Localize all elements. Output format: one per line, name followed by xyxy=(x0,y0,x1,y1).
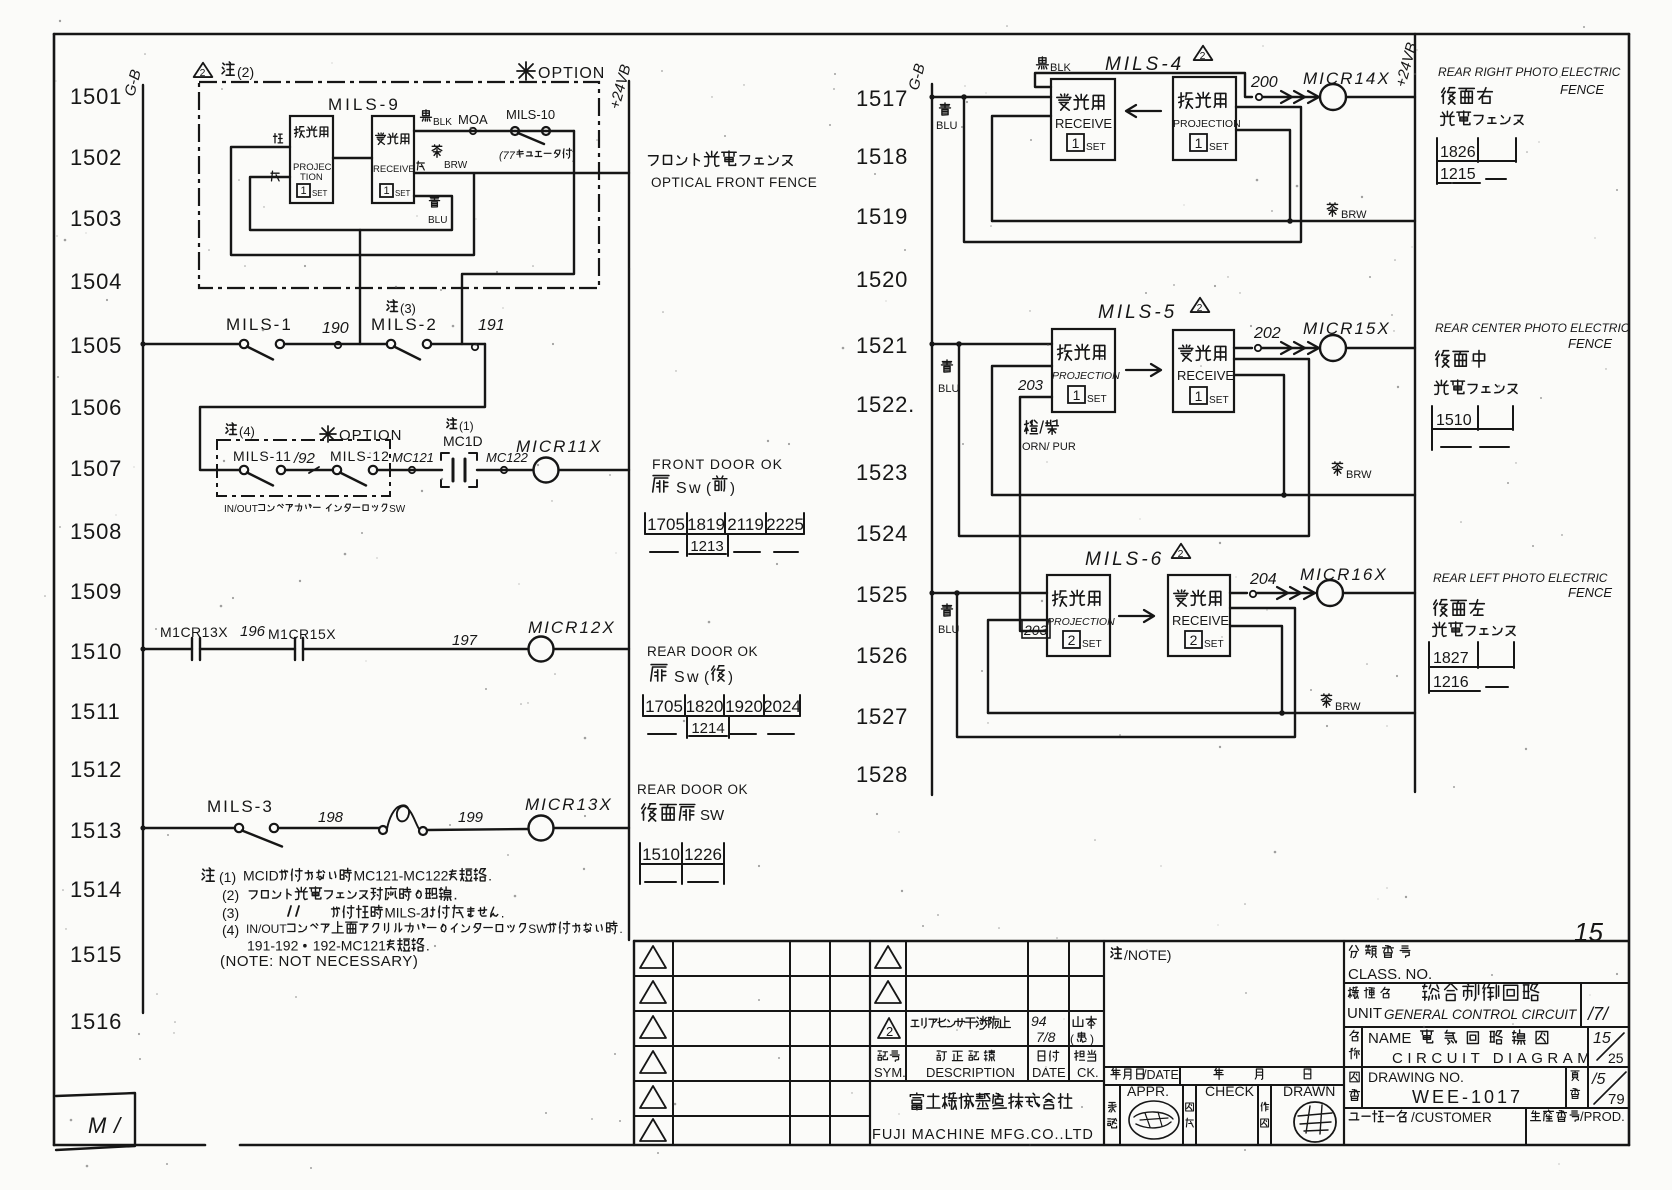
right G-B rail xyxy=(931,84,933,795)
svg-text:DATE: DATE xyxy=(1032,1065,1066,1080)
switch MILS-10 xyxy=(506,107,555,144)
label REAR RIGHT PHOTO ELECTRIC FENCE xyxy=(1438,65,1621,97)
wire coil MICR15X to rail xyxy=(1346,347,1415,349)
switch MILS-1 xyxy=(226,315,293,360)
wire between projection and receive xyxy=(333,157,372,159)
wire MILS-11 to MILS-12 with tick xyxy=(285,467,333,473)
svg-text:WEE-1017: WEE-1017 xyxy=(1412,1087,1523,1107)
svg-text:1510: 1510 xyxy=(642,845,680,864)
svg-text:192-MC121: 192-MC121 xyxy=(313,938,386,954)
svg-text:MILS-6: MILS-6 xyxy=(1085,549,1164,570)
unit row xyxy=(1347,983,1610,1027)
title block frame horizontals xyxy=(634,941,1628,1116)
label OPTION top xyxy=(517,62,605,82)
svg-text:PROJECTION: PROJECTION xyxy=(1047,616,1115,628)
svg-text:RECEIVE: RECEIVE xyxy=(1055,116,1112,131)
svg-text:1226: 1226 xyxy=(684,845,722,864)
svg-text:MILS-2: MILS-2 xyxy=(385,906,429,921)
label 注(3) xyxy=(387,300,416,316)
label actuator note xyxy=(499,148,576,162)
chevron arrows MILS-6 xyxy=(1257,587,1315,599)
xref table rung 1513 xyxy=(640,843,724,884)
svg-text:TION: TION xyxy=(300,172,323,183)
svg-text:1521: 1521 xyxy=(856,333,908,358)
svg-text:2: 2 xyxy=(1068,632,1076,648)
wire outer loop BLU MILS-4 xyxy=(961,94,1301,242)
label MILS-5 title xyxy=(1098,298,1209,323)
title block frame verticals xyxy=(634,941,1344,1145)
svg-text:1: 1 xyxy=(1073,387,1081,403)
drawing no row xyxy=(1350,1067,1626,1108)
svg-text:1826: 1826 xyxy=(1440,144,1476,161)
coil MICR16X xyxy=(1300,565,1388,606)
svg-text:MC121: MC121 xyxy=(392,450,434,465)
terminal 191 xyxy=(472,317,505,350)
svg-text:BLU: BLU xyxy=(936,120,957,132)
receive box MILS-5 xyxy=(1173,330,1234,412)
svg-text:REAR LEFT PHOTO ELECTRIC: REAR LEFT PHOTO ELECTRIC xyxy=(1433,571,1608,585)
junction left rail 1505 xyxy=(140,341,145,346)
svg-text:BRW: BRW xyxy=(1341,209,1367,221)
wire MC1D to coil xyxy=(477,469,533,471)
label door sw front jp xyxy=(653,476,735,497)
svg-text:1517: 1517 xyxy=(856,86,908,111)
wire BRW receive to +24VB rail xyxy=(414,172,629,174)
svg-text:(: ( xyxy=(704,669,709,686)
svg-text:): ) xyxy=(728,669,733,686)
wire MILS-2 to corner xyxy=(431,343,485,345)
drawn stamp xyxy=(1294,1102,1336,1142)
wire outer loop MILS-6 xyxy=(954,590,1295,737)
svg-text:/5: /5 xyxy=(1591,1071,1605,1088)
note line 3 xyxy=(222,905,505,921)
svg-text:MC121-MC122: MC121-MC122 xyxy=(354,868,449,884)
svg-text:REAR RIGHT PHOTO ELECTRIC: REAR RIGHT PHOTO ELECTRIC xyxy=(1438,65,1621,79)
wire inner loop MILS-5 xyxy=(992,366,1052,495)
wire loop A projection pin1 xyxy=(231,147,474,255)
xref table MILS-6 xyxy=(1429,642,1514,693)
svg-text:191: 191 xyxy=(478,317,505,334)
left +24VB rail xyxy=(628,81,630,940)
svg-text:2: 2 xyxy=(200,68,206,79)
svg-text:RECEIVE: RECEIVE xyxy=(373,164,415,175)
wire color label BLK MILS-4 xyxy=(1037,57,1072,74)
receive box MILS-6 xyxy=(1168,575,1230,656)
svg-text:DESCRIPTION: DESCRIPTION xyxy=(926,1065,1015,1080)
switch MILS-2 xyxy=(371,315,438,360)
svg-text:): ) xyxy=(730,480,735,497)
svg-text:FUJI MACHINE MFG.CO..LTD: FUJI MACHINE MFG.CO..LTD xyxy=(872,1127,1094,1143)
svg-text:199: 199 xyxy=(458,809,484,826)
dashed option box MILS-11/12 xyxy=(217,440,390,496)
svg-text:CLASS. NO.: CLASS. NO. xyxy=(1348,966,1432,983)
svg-text:1524: 1524 xyxy=(856,521,908,546)
svg-text:1510: 1510 xyxy=(70,639,122,664)
svg-text:MILS-12: MILS-12 xyxy=(330,448,390,464)
svg-text:1510: 1510 xyxy=(1436,412,1472,429)
wire step down to rung 1507 xyxy=(200,344,485,470)
wire color label 青 BLU below receive xyxy=(428,196,447,226)
svg-text:.: . xyxy=(501,906,505,921)
company name japanese xyxy=(910,1093,923,1109)
svg-text:w: w xyxy=(688,480,701,497)
svg-text:MC1D: MC1D xyxy=(443,433,483,449)
label REAR LEFT PHOTO ELECTRIC FENCE xyxy=(1433,571,1612,600)
svg-text:1820: 1820 xyxy=(686,697,724,716)
svg-text:2: 2 xyxy=(1178,549,1184,560)
svg-text:(4): (4) xyxy=(239,424,255,439)
wire BRW MILS-4 to rail xyxy=(992,130,1415,224)
contact MC1D xyxy=(452,459,455,481)
svg-text:S: S xyxy=(676,480,687,497)
svg-text:SET: SET xyxy=(1087,394,1107,405)
revision header row xyxy=(874,1050,1099,1080)
svg-text:1215: 1215 xyxy=(1440,166,1476,183)
contact MICR13X xyxy=(160,624,228,660)
svg-text:15: 15 xyxy=(1593,1030,1611,1047)
wire BLK stepped MILS-4 xyxy=(1035,73,1252,97)
svg-text:15: 15 xyxy=(1574,917,1603,947)
receive unit box MILS-9 xyxy=(372,116,415,203)
right rung numbers 1517-1528 xyxy=(856,86,915,787)
label MILS-6 title xyxy=(1085,544,1190,570)
terminal MC121 xyxy=(392,450,434,473)
terminal 190 xyxy=(322,320,349,348)
svg-text:GENERAL CONTROL CIRCUIT: GENERAL CONTROL CIRCUIT xyxy=(1384,1007,1578,1022)
wire BRW MILS-5 to rail xyxy=(992,375,1415,498)
note line 1 xyxy=(202,868,492,885)
svg-text:MICR12X: MICR12X xyxy=(528,618,616,637)
svg-text:1501: 1501 xyxy=(70,84,122,109)
svg-text:196: 196 xyxy=(240,623,266,640)
wire color label BRW MILS-6 xyxy=(1321,694,1361,713)
svg-text:w: w xyxy=(686,669,699,686)
arrow left between boxes MILS-4 xyxy=(1126,105,1161,117)
wire color label BLU MILS-5 xyxy=(938,360,959,395)
svg-text:190: 190 xyxy=(322,320,349,337)
wire receive MILS-6 to terminal xyxy=(1230,592,1247,594)
revision row 2 entry xyxy=(878,1013,1096,1046)
svg-text:BLU: BLU xyxy=(938,383,959,395)
svg-text:SET: SET xyxy=(1086,142,1106,153)
svg-text:MICR16X: MICR16X xyxy=(1300,565,1388,584)
revision triangles center column xyxy=(875,946,901,1003)
wire MILS-3 to loop symbol xyxy=(278,827,379,829)
svg-text:REAR DOOR OK: REAR DOOR OK xyxy=(637,782,748,797)
wire color label BRW MILS-4 xyxy=(1327,203,1367,221)
svg-text:200: 200 xyxy=(1250,74,1278,91)
svg-text:MILS-2: MILS-2 xyxy=(371,315,438,334)
svg-text:BRW: BRW xyxy=(1346,469,1372,481)
customer row xyxy=(1349,1108,1625,1145)
svg-text:/CUSTOMER: /CUSTOMER xyxy=(1411,1110,1492,1125)
svg-text:SW: SW xyxy=(528,922,548,936)
svg-text:APPR.: APPR. xyxy=(1127,1083,1169,1099)
svg-text:1920: 1920 xyxy=(725,697,763,716)
svg-text:(3): (3) xyxy=(400,301,416,316)
svg-text:2: 2 xyxy=(886,1024,893,1039)
svg-text:2: 2 xyxy=(1197,303,1203,314)
svg-text:UNIT: UNIT xyxy=(1347,1005,1382,1022)
note line 2 xyxy=(222,886,458,904)
svg-text:191-192: 191-192 xyxy=(247,938,299,954)
rung 1505 wire xyxy=(143,343,240,345)
contact MICR15X xyxy=(268,626,336,660)
xref table rung 1507 xyxy=(645,513,804,556)
svg-text:(NOTE: NOT NECESSARY): (NOTE: NOT NECESSARY) xyxy=(220,953,418,970)
wire coil MICR16X to rail xyxy=(1343,592,1415,594)
coil MICR13X xyxy=(525,795,613,841)
revision triangles left column xyxy=(640,946,666,1141)
arrow right between boxes MILS-5 xyxy=(1126,364,1161,376)
projection box MILS-5 xyxy=(1052,329,1120,412)
svg-text:RECEIVE: RECEIVE xyxy=(1172,613,1229,628)
svg-text:CIRCUIT DIAGRAM: CIRCUIT DIAGRAM xyxy=(1392,1050,1594,1067)
wire BLK from receive to MILS-10 xyxy=(414,130,574,132)
label rear center jp xyxy=(1435,350,1518,394)
wire outer loop MILS-5 xyxy=(956,341,1309,536)
svg-text:OPTICAL FRONT FENCE: OPTICAL FRONT FENCE xyxy=(651,175,817,190)
svg-text:REAR CENTER PHOTO ELECTRIC: REAR CENTER PHOTO ELECTRIC xyxy=(1435,321,1630,335)
svg-text:1516: 1516 xyxy=(70,1009,122,1034)
svg-text:(1): (1) xyxy=(219,869,236,885)
xref table MILS-5 xyxy=(1432,406,1513,450)
wire receive MILS-5 to terminal xyxy=(1234,347,1252,349)
svg-text:(2): (2) xyxy=(237,64,254,80)
svg-text:BRW: BRW xyxy=(444,160,468,171)
svg-text:203: 203 xyxy=(1023,622,1048,638)
projection box MILS-4 xyxy=(1173,77,1241,160)
wire color label BLK black xyxy=(421,110,453,128)
svg-text:1519: 1519 xyxy=(856,204,908,229)
svg-text:MILS-5: MILS-5 xyxy=(1098,302,1177,323)
terminal 202 xyxy=(1253,325,1281,351)
svg-text:FENCE: FENCE xyxy=(1568,336,1612,351)
loop symbol rung 1513 xyxy=(379,805,427,835)
right +24VB rail xyxy=(1414,34,1416,792)
svg-text:1: 1 xyxy=(300,185,306,197)
svg-text:M1CR15X: M1CR15X xyxy=(268,626,336,642)
projection unit box MILS-9 xyxy=(290,116,333,203)
approval stamp xyxy=(1129,1101,1179,1139)
label front optical fence jp xyxy=(649,156,659,166)
svg-text:FENCE: FENCE xyxy=(1560,82,1604,97)
xref table MILS-4 xyxy=(1437,138,1516,184)
svg-text:): ) xyxy=(1090,1032,1094,1046)
svg-text:MILS-11: MILS-11 xyxy=(233,448,292,464)
svg-text:MICR13X: MICR13X xyxy=(525,795,613,814)
svg-text:(: ( xyxy=(1070,1032,1074,1046)
svg-text:1827: 1827 xyxy=(1433,650,1469,667)
svg-text:.: . xyxy=(619,922,622,936)
rung 1521 wire xyxy=(929,341,1052,346)
svg-text:(2): (2) xyxy=(222,887,239,903)
label 注(4) xyxy=(226,423,255,439)
svg-text:(3): (3) xyxy=(222,905,239,921)
label rear left jp xyxy=(1433,600,1516,637)
svg-text:1216: 1216 xyxy=(1433,674,1469,691)
svg-text:/7/: /7/ xyxy=(1586,1004,1610,1024)
svg-text:SW: SW xyxy=(700,807,725,824)
svg-text:1528: 1528 xyxy=(856,762,908,787)
svg-text:1509: 1509 xyxy=(70,579,122,604)
svg-text:1502: 1502 xyxy=(70,145,122,170)
label REAR CENTER PHOTO ELECTRIC FENCE xyxy=(1435,321,1630,351)
svg-text:79: 79 xyxy=(1608,1091,1625,1108)
coil MICR14X xyxy=(1303,69,1391,110)
label MILS-4 title xyxy=(1105,46,1212,75)
svg-text:1504: 1504 xyxy=(70,269,122,294)
svg-text:IN/OUT: IN/OUT xyxy=(224,504,258,515)
svg-text:1213: 1213 xyxy=(690,538,723,555)
arrow right between boxes MILS-6 xyxy=(1119,610,1154,622)
svg-text:1508: 1508 xyxy=(70,519,122,544)
svg-text:1525: 1525 xyxy=(856,582,908,607)
wire color label 茶 BRW at receive right xyxy=(417,145,468,171)
wire inner loop MILS-6 xyxy=(988,620,1047,713)
svg-text:2225: 2225 xyxy=(766,515,804,534)
svg-text:1526: 1526 xyxy=(856,643,908,668)
svg-text:1819: 1819 xyxy=(687,515,725,534)
svg-text:2: 2 xyxy=(1200,51,1206,62)
label OPTION 1507 xyxy=(320,426,403,444)
svg-text:IN/OUT: IN/OUT xyxy=(246,922,287,936)
rung 1513 wire xyxy=(140,825,235,830)
svg-text:SET: SET xyxy=(1204,639,1224,650)
receive box MILS-4 xyxy=(1051,79,1115,160)
wire MILS-10 down to node 191 xyxy=(462,131,574,344)
svg-text:1214: 1214 xyxy=(691,720,724,737)
svg-text:203: 203 xyxy=(1017,377,1044,394)
svg-text:1: 1 xyxy=(1072,135,1080,151)
svg-text:1520: 1520 xyxy=(856,267,908,292)
svg-text:MCID: MCID xyxy=(243,868,279,884)
wire MILS-1 to MILS-2 xyxy=(284,343,387,345)
name row xyxy=(1349,1027,1624,1067)
svg-text:PROJECTION: PROJECTION xyxy=(1052,370,1120,382)
wire color label 朱 at projection pin1 xyxy=(274,134,283,143)
svg-text:OPTION: OPTION xyxy=(339,427,403,444)
svg-text:REAR DOOR OK: REAR DOOR OK xyxy=(647,644,758,659)
wire coil MICR14X to +24VB rail xyxy=(1346,96,1415,98)
xref table rung 1510 xyxy=(643,695,801,738)
svg-text:SET: SET xyxy=(395,189,411,198)
label 注(2) xyxy=(222,62,254,80)
wire coil to +24VB rail 1513 xyxy=(554,827,630,829)
svg-text:25: 25 xyxy=(1608,1050,1624,1066)
svg-text:ORN/ PUR: ORN/ PUR xyxy=(1022,441,1076,453)
label door sw rear jp xyxy=(651,665,733,686)
svg-text:1522.: 1522. xyxy=(856,392,915,417)
svg-text:/DATE: /DATE xyxy=(1143,1068,1179,1082)
svg-text:1506: 1506 xyxy=(70,395,122,420)
svg-text:DRAWN: DRAWN xyxy=(1283,1083,1335,1099)
svg-text:/92: /92 xyxy=(293,450,316,467)
terminal MOA xyxy=(458,112,488,134)
svg-text:1507: 1507 xyxy=(70,456,122,481)
svg-text:OPTION: OPTION xyxy=(538,65,605,82)
label 203 MILS-6 xyxy=(1022,620,1050,638)
svg-text:1: 1 xyxy=(1195,388,1203,404)
wire color label BRW MILS-5 xyxy=(1332,462,1372,481)
label rear door sw jp xyxy=(642,804,725,824)
svg-text:MICR11X: MICR11X xyxy=(516,437,602,456)
svg-text:FENCE: FENCE xyxy=(1568,585,1612,600)
svg-text:94: 94 xyxy=(1031,1013,1047,1029)
wire coil to +24VB rail 1507 xyxy=(559,469,630,471)
chevron arrows MILS-5 xyxy=(1262,342,1319,354)
svg-text:S: S xyxy=(674,669,685,686)
chevron arrows MILS-4 xyxy=(1263,91,1319,103)
terminal 204 xyxy=(1249,571,1277,597)
left rung numbers 1501-1516 xyxy=(70,84,122,1034)
svg-text:CK.: CK. xyxy=(1077,1065,1099,1080)
svg-text:1523: 1523 xyxy=(856,460,908,485)
terminal MC122 xyxy=(486,450,529,473)
svg-text:1705: 1705 xyxy=(647,515,685,534)
wire color label BLU MILS-4 xyxy=(936,103,957,132)
switch MILS-11 xyxy=(233,448,292,486)
svg-text:1503: 1503 xyxy=(70,206,122,231)
wire 203 sync MILS-5 to MILS-6 xyxy=(1020,397,1052,631)
svg-text:SET: SET xyxy=(1209,142,1229,153)
dashed option box MILS-9 xyxy=(199,82,599,288)
left power rail G-B xyxy=(142,85,144,1013)
label 注(1) MC1D xyxy=(443,418,483,449)
svg-text:BLU: BLU xyxy=(428,215,447,226)
svg-text:198: 198 xyxy=(318,809,344,826)
svg-text:2119: 2119 xyxy=(727,515,764,534)
label rear right jp xyxy=(1441,88,1524,126)
svg-text:1: 1 xyxy=(1195,135,1203,151)
svg-text:7/8: 7/8 xyxy=(1036,1029,1056,1045)
svg-text:SET: SET xyxy=(312,189,328,198)
date header row xyxy=(1111,1068,1311,1082)
wire coil to +24VB rail 1510 xyxy=(554,648,630,650)
svg-text:MICR15X: MICR15X xyxy=(1303,319,1391,338)
rung 1510 wire xyxy=(140,646,528,651)
svg-text:PROJECTION: PROJECTION xyxy=(1173,118,1241,130)
svg-text:.: . xyxy=(453,886,457,904)
svg-text:RECEIVE: RECEIVE xyxy=(1177,368,1234,383)
note header xyxy=(1111,947,1171,963)
svg-text:1527: 1527 xyxy=(856,704,908,729)
warning triangle note2 xyxy=(194,63,213,79)
svg-text:2: 2 xyxy=(1190,632,1198,648)
svg-text:MICR14X: MICR14X xyxy=(1303,69,1391,88)
projection box MILS-6 xyxy=(1047,575,1115,656)
wire drop center to rung 1505 xyxy=(359,230,361,344)
approval row xyxy=(1108,1083,1336,1128)
svg-text:1512: 1512 xyxy=(70,757,122,782)
svg-text:1518: 1518 xyxy=(856,144,908,169)
svg-text:1705: 1705 xyxy=(645,697,683,716)
rung 1525 wire xyxy=(929,590,1047,595)
svg-text:BRW: BRW xyxy=(1335,701,1361,713)
svg-text:1515: 1515 xyxy=(70,942,122,967)
svg-text:MILS-10: MILS-10 xyxy=(506,107,555,122)
switch MILS-12 xyxy=(330,448,390,486)
class no box xyxy=(1348,945,1432,983)
wire color label BLU MILS-6 xyxy=(938,604,959,636)
svg-text:MILS-9: MILS-9 xyxy=(328,95,401,114)
svg-text:M1CR13X: M1CR13X xyxy=(160,624,228,640)
svg-text:1513: 1513 xyxy=(70,818,122,843)
svg-text:MILS-1: MILS-1 xyxy=(226,315,293,334)
svg-text:1511: 1511 xyxy=(70,699,121,724)
wire loop to coil xyxy=(427,829,529,830)
svg-text:1: 1 xyxy=(383,185,389,197)
